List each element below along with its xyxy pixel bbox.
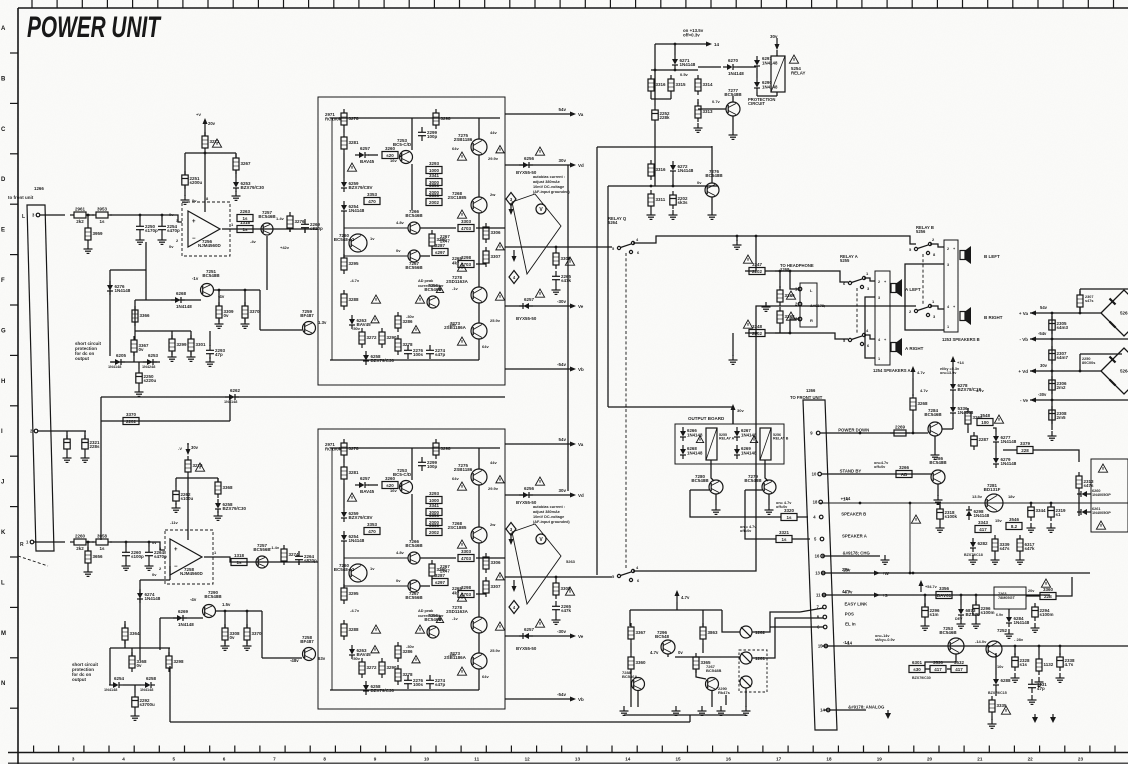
wire (696, 670, 706, 679)
wire (925, 654, 956, 665)
resistor 3278 (341, 439, 359, 459)
pin 15 (818, 644, 828, 649)
resistor 1318 (231, 553, 247, 566)
pin 3 (795, 317, 802, 322)
output board box (675, 424, 784, 464)
wire (732, 333, 734, 356)
wire (912, 414, 914, 433)
transistor Q (632, 678, 645, 691)
transistor 7253 (939, 626, 964, 654)
wire (947, 668, 951, 670)
ground (672, 706, 681, 715)
diode 6254 (341, 531, 365, 545)
diode 6257 (355, 146, 375, 164)
resistor 3308 (222, 624, 240, 644)
junction (204, 152, 207, 155)
resistor 3307 (483, 247, 501, 267)
transistor 7273 (444, 651, 487, 669)
wire (667, 654, 669, 657)
wire (478, 485, 480, 527)
diode 6873 (958, 605, 980, 619)
wire (676, 602, 678, 610)
resistor 3360 (628, 653, 646, 673)
wire (420, 585, 430, 587)
wire (924, 595, 926, 606)
transistor 7266 (405, 209, 423, 234)
resistor 3343 (975, 520, 991, 533)
speaker B RIGHT (960, 307, 971, 325)
net arrow Ve (557, 629, 584, 639)
ground (885, 710, 891, 719)
wire (637, 691, 639, 707)
junction (246, 610, 249, 613)
resistor 3353 (364, 522, 380, 535)
wire (702, 610, 704, 626)
resistor 3313 (695, 102, 713, 122)
resistor 3290 (429, 230, 447, 250)
wire (715, 494, 717, 505)
border frame left (17, 8, 19, 764)
capacitor 2308 (1049, 406, 1067, 424)
warning symbol (1001, 706, 1010, 714)
resistor 1318 (237, 220, 253, 233)
transistor 7253 (393, 138, 413, 164)
warning symbol (994, 415, 1003, 423)
label autobias (533, 175, 570, 194)
wire (912, 378, 914, 396)
wire (1030, 503, 1032, 506)
warning symbol (347, 163, 356, 171)
relay switch relay A 2 (848, 333, 865, 345)
wire (478, 669, 480, 690)
junction (650, 185, 653, 188)
wire bottom bus (170, 721, 690, 723)
wire (100, 397, 102, 540)
wire (420, 227, 456, 229)
current limit polygon (512, 524, 561, 604)
transistor 7257 (253, 543, 271, 568)
wire (262, 657, 302, 659)
wire (168, 648, 170, 656)
resistor 6317 (1017, 535, 1035, 555)
wire (478, 155, 480, 197)
warning symbol (371, 625, 380, 633)
wire (672, 175, 674, 186)
wire pos (800, 617, 823, 619)
warning symbol (786, 312, 795, 320)
ground (215, 319, 224, 328)
wire (505, 635, 572, 637)
wire (689, 715, 691, 722)
wire (411, 118, 413, 150)
wire (331, 448, 333, 690)
supply arrow (509, 203, 514, 215)
diode 6253 (143, 353, 159, 365)
wire (261, 611, 263, 658)
wire output (505, 246, 612, 248)
wire (725, 695, 727, 705)
relay coil 5255 (706, 428, 717, 460)
junction (148, 541, 151, 544)
wire speaker return (865, 297, 875, 358)
wire (674, 44, 676, 55)
wire (757, 95, 777, 97)
capacitor 2294 (1032, 603, 1054, 621)
supply arrow (512, 250, 517, 262)
wire (368, 484, 378, 486)
resistor 3274 (281, 545, 299, 565)
ground (84, 567, 93, 576)
capacitor 2254 (158, 221, 180, 235)
capacitor 2276 (404, 345, 424, 359)
resistor 3298 (433, 109, 451, 129)
warning symbol (496, 476, 504, 483)
warning symbol (347, 493, 356, 501)
wire (752, 618, 800, 658)
ground (136, 235, 145, 244)
wire (711, 460, 714, 481)
wire (139, 215, 141, 221)
supply arrow (675, 590, 680, 602)
wire (246, 611, 248, 628)
wire (84, 431, 86, 439)
wire (176, 477, 218, 479)
wire (110, 269, 146, 271)
wire speaker return (905, 264, 944, 330)
wire (478, 213, 480, 287)
resistor 3311 (648, 190, 666, 210)
transistor 7266 (405, 539, 423, 564)
ground (1047, 523, 1056, 532)
net arrow Vd (558, 488, 584, 498)
junction (555, 246, 558, 249)
wire (995, 446, 997, 454)
wire (722, 610, 740, 632)
resistor 3293 (426, 491, 442, 504)
wire (765, 271, 800, 289)
wire (942, 428, 953, 430)
resistor 3278 (395, 335, 413, 355)
resistor 3278 (395, 665, 413, 685)
wire (505, 494, 572, 496)
pin 7 (816, 605, 826, 610)
junction (1051, 312, 1054, 315)
wire (775, 271, 848, 282)
wire (343, 129, 345, 133)
wire (993, 428, 996, 432)
test point V (536, 534, 546, 544)
wire (260, 329, 302, 331)
capacitor 1131 (1028, 679, 1047, 693)
resistor 3306 (483, 553, 501, 573)
resistor 3298 (458, 585, 474, 598)
net arrow Va (558, 437, 583, 447)
label AD peak current limiter (418, 609, 444, 618)
wire (214, 289, 260, 291)
wire (298, 562, 300, 565)
wire (505, 698, 572, 700)
junction (161, 214, 164, 217)
wire (1050, 503, 1052, 506)
transistor 7267 (405, 250, 423, 270)
resistor 3348 (749, 324, 765, 337)
resistor 3364 (122, 624, 140, 644)
pin 18 (813, 500, 823, 505)
wire (184, 153, 186, 175)
wire (1080, 353, 1122, 355)
resistor 3349 (777, 286, 795, 306)
wire long vertical (567, 165, 569, 491)
diode 6205 (111, 353, 127, 365)
label R (20, 542, 24, 548)
junction (87, 541, 90, 544)
label autobias (533, 505, 570, 524)
wire (765, 460, 768, 481)
left ruler letters (1, 26, 18, 708)
diode D (734, 427, 740, 441)
wire (930, 306, 944, 309)
resistor 3348 (777, 307, 795, 327)
wire (135, 299, 201, 301)
op-amp block 7258 dashed (165, 530, 213, 584)
wire (139, 580, 141, 660)
resistor 3367 (628, 623, 646, 643)
wire (1026, 595, 1040, 597)
wire (779, 271, 781, 288)
label to front unit (8, 195, 34, 200)
diode 6298 (966, 506, 990, 520)
capacitor 2328 (1012, 653, 1030, 671)
pin 14 (820, 708, 830, 713)
wire (229, 397, 231, 421)
wire (411, 164, 413, 210)
warning symbol (1098, 464, 1107, 472)
wire (597, 146, 712, 148)
wire (925, 668, 930, 670)
resistor 3341 (426, 503, 442, 516)
ground (1035, 677, 1044, 686)
capacitor 2319 (1048, 503, 1066, 521)
junction (909, 572, 912, 575)
resistor 3368 (215, 478, 233, 498)
wire 4.7v (822, 594, 1050, 596)
resistor 3316 (648, 160, 666, 180)
wire (224, 611, 226, 628)
resistor 3293 (426, 161, 442, 174)
power amp stage box (318, 429, 505, 709)
pin 8 (817, 615, 827, 620)
ground (1048, 431, 1057, 440)
junction (1038, 645, 1041, 648)
ground (936, 523, 945, 532)
connector 1266 to front unit (27, 205, 54, 551)
resistor 3260 (382, 146, 398, 159)
transistor 7296 (655, 630, 675, 654)
resistor 3548 (977, 413, 993, 426)
junction (224, 610, 227, 613)
wire (420, 255, 430, 257)
ground (931, 450, 940, 459)
resistor 3267 (233, 154, 251, 174)
ground (168, 352, 177, 361)
wire gnd bus (624, 714, 746, 716)
wire (138, 362, 140, 369)
ground (729, 355, 738, 364)
test point V (536, 204, 546, 214)
junction (654, 69, 657, 72)
wire (204, 152, 206, 212)
wire (38, 430, 86, 432)
wire (967, 408, 969, 410)
wire (505, 305, 572, 307)
pin 4 (813, 515, 823, 520)
wire power down (820, 432, 928, 434)
diode 6274 (137, 589, 161, 603)
wire (630, 670, 632, 707)
wire (134, 300, 136, 340)
diode 6259 (341, 178, 373, 192)
net arrow +W (874, 571, 890, 577)
wire (133, 352, 135, 362)
wire (1038, 646, 1040, 655)
pin 9 (810, 431, 820, 436)
wire (864, 335, 875, 339)
junction (789, 270, 792, 273)
transistor 7260 (334, 233, 367, 252)
ground (694, 123, 703, 132)
wire (344, 255, 408, 257)
wire (343, 215, 345, 258)
wire (110, 542, 165, 550)
resistor 3286 (395, 312, 413, 332)
wire (1079, 354, 1081, 371)
capacitor 2299 (418, 457, 438, 471)
resistor 3339 (992, 535, 1010, 555)
supply arrow (509, 533, 514, 545)
warning symbol (457, 593, 466, 601)
resistor 3271 (202, 132, 220, 152)
wire (608, 185, 718, 187)
wire (952, 417, 954, 429)
diode 6258 (141, 676, 157, 688)
connector 1253 speakers B (944, 240, 958, 332)
resistor 3290 (429, 560, 447, 580)
junction (672, 185, 675, 188)
resistor 3656 (85, 547, 103, 567)
warning symbol (415, 295, 424, 303)
wire (797, 516, 808, 518)
ground (733, 240, 742, 249)
wire (368, 154, 378, 156)
resistor 3356 (936, 586, 952, 599)
diode D (1077, 491, 1091, 497)
wire (110, 647, 170, 649)
resistor 2961 (70, 207, 90, 225)
ground (221, 641, 230, 650)
pin 3 (32, 213, 40, 218)
wire (209, 331, 211, 346)
wire (124, 621, 126, 628)
capacitor 2274 (426, 675, 446, 689)
junction (912, 432, 915, 435)
junction (1051, 370, 1054, 373)
wire rail 54v (1030, 312, 1101, 314)
wire (131, 648, 133, 656)
resistor 3295 (341, 254, 359, 274)
wire (235, 153, 237, 158)
resistor 2269 (890, 425, 910, 437)
wire rail top (330, 117, 500, 119)
transistor 7268 (448, 191, 487, 213)
resistor 3308 (553, 249, 571, 269)
ground (552, 285, 561, 294)
resistor 3260 (382, 476, 398, 489)
net arrow Va (558, 107, 583, 117)
label short circuit protection (75, 341, 102, 361)
junction (755, 235, 758, 238)
resistor 3306 (483, 223, 501, 243)
junction (87, 214, 90, 217)
resistor 3287 (432, 243, 448, 256)
resistor 3288 (341, 620, 359, 640)
wire (654, 104, 656, 106)
connector 1268 headphone (800, 283, 817, 327)
capacitor 2262 (173, 487, 194, 505)
ground (552, 615, 561, 624)
wire (1079, 307, 1081, 313)
wire (411, 494, 413, 540)
ground (1027, 523, 1036, 532)
speaker B LEFT (960, 246, 971, 264)
warning symbol (535, 289, 544, 297)
diode D (754, 78, 760, 92)
junction (960, 594, 963, 597)
wire (1078, 492, 1080, 516)
connector 1254 speakers A (875, 271, 890, 365)
wire (289, 229, 291, 232)
wire (745, 236, 756, 271)
net arrow + Vd (1018, 369, 1036, 375)
wire (864, 278, 875, 281)
diode D (680, 427, 686, 441)
warning symbol (415, 625, 424, 633)
wire (630, 643, 632, 653)
wire (34, 541, 65, 543)
wire (792, 538, 810, 540)
resistor 3367 (131, 336, 149, 356)
diode 6257 (519, 627, 535, 639)
wire (101, 420, 230, 422)
capacitor 2202 (670, 191, 688, 209)
wire (952, 368, 954, 380)
supply arrow 20v (203, 118, 216, 130)
wire (160, 617, 203, 619)
wire (1014, 646, 1016, 655)
test point 3 (506, 193, 516, 206)
wire long vertical (607, 186, 609, 407)
pin 2 (30, 429, 38, 434)
wire (690, 489, 709, 491)
junction (244, 289, 247, 292)
wire (476, 593, 486, 595)
resistor 3360 (1040, 587, 1056, 600)
warning symbol (743, 255, 752, 263)
relay switch relay Q bottom (617, 569, 634, 581)
junction (755, 332, 758, 335)
EL board box (1091, 459, 1128, 532)
ground (131, 711, 140, 720)
capacitor 2252 (652, 106, 670, 124)
